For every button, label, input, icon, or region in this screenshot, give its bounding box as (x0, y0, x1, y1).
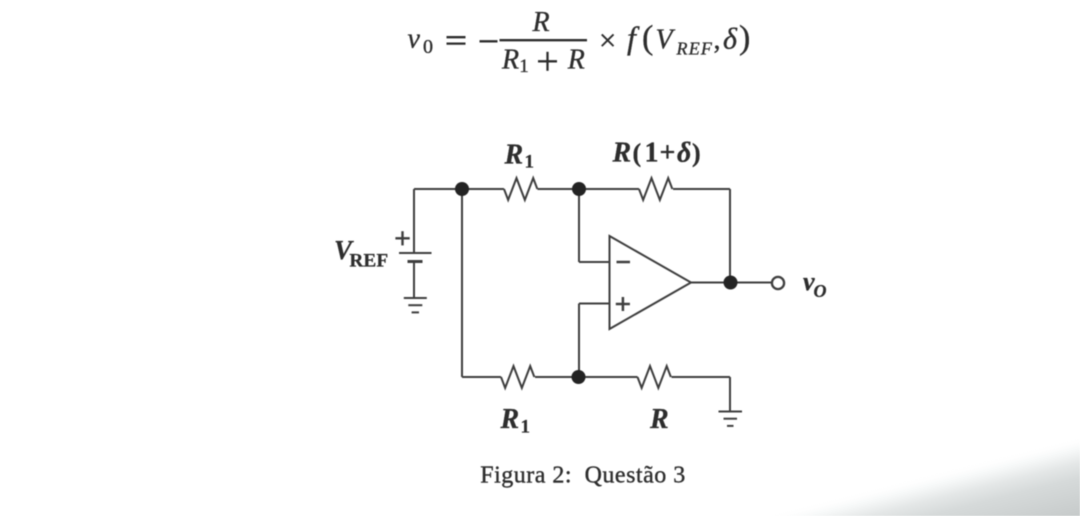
svg-text:,: , (714, 25, 721, 56)
resistor R bottom (638, 366, 671, 388)
label R1 (bottom) (500, 404, 531, 438)
wire left branch vertical (461, 189, 463, 377)
label vO (803, 267, 827, 301)
op-amp U1 (610, 236, 692, 329)
wire top rail right (673, 188, 730, 190)
ground (battery) (404, 298, 427, 312)
svg-text:R: R (612, 138, 632, 169)
svg-text:(: ( (633, 139, 642, 168)
output terminal (772, 277, 784, 289)
svg-text:O: O (814, 281, 827, 301)
svg-text:R: R (531, 7, 549, 38)
svg-text:REF: REF (676, 38, 714, 58)
svg-text:(: ( (642, 20, 653, 57)
wire battery bottom lead (413, 262, 415, 298)
wire bottom rail right (672, 376, 731, 378)
svg-text:Figura 2: Questão 3: Figura 2: Questão 3 (480, 463, 685, 489)
svg-text:δ: δ (677, 138, 691, 169)
svg-text:1: 1 (521, 417, 531, 438)
svg-text:f: f (627, 20, 640, 56)
svg-text:1: 1 (525, 152, 535, 173)
svg-text:1: 1 (519, 56, 529, 77)
wire top rail middle (538, 188, 640, 190)
node B (inverting junction) (572, 182, 586, 196)
wire top rail left (414, 188, 504, 190)
svg-text:×: × (599, 23, 616, 58)
svg-text:1: 1 (645, 138, 659, 169)
corner shading (700, 380, 1080, 516)
op-amp noninverting input marker (616, 297, 630, 311)
wire feedback vertical (729, 189, 731, 283)
wire bottom rail middle (535, 376, 638, 378)
wire bottom ground lead (729, 377, 731, 412)
svg-text:): ) (692, 139, 701, 168)
wire inverting input horizontal (579, 261, 610, 263)
wire noninverting branch vertical (578, 304, 580, 378)
resistor R1 top (504, 178, 537, 200)
formula (408, 7, 751, 77)
svg-text:v: v (408, 24, 421, 55)
wire inverting branch vertical (578, 189, 580, 262)
svg-text:REF: REF (350, 251, 389, 272)
svg-text:V: V (656, 25, 676, 56)
svg-text:R: R (501, 44, 519, 75)
svg-text:+: + (660, 138, 676, 169)
wire battery top lead (413, 189, 415, 253)
op-amp inverting input marker (617, 261, 631, 264)
node output junction (724, 276, 738, 290)
svg-text:R: R (649, 404, 669, 435)
ground (bottom right) (719, 412, 743, 426)
wire noninverting input horizontal (579, 303, 610, 305)
resistor R1 bottom (501, 366, 534, 388)
svg-text:R: R (504, 140, 524, 171)
label R(1+delta) (612, 138, 701, 169)
svg-text:): ) (739, 20, 750, 57)
battery plus sign (395, 231, 409, 245)
wire bottom rail left (462, 376, 501, 378)
svg-text:δ: δ (723, 23, 738, 56)
voltage source VREF battery (399, 253, 432, 262)
resistor R(1+delta) (639, 178, 672, 200)
wire output (691, 282, 772, 284)
label R1 (top) (504, 140, 535, 173)
label VREF (334, 235, 388, 271)
node A (top left junction) (455, 182, 469, 196)
node C (noninverting junction) (572, 370, 586, 384)
svg-text:R: R (567, 44, 585, 75)
svg-text:0: 0 (423, 36, 433, 58)
svg-text:R: R (500, 404, 520, 435)
